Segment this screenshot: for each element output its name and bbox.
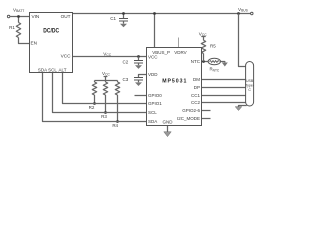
svg-text:DC/DC: DC/DC xyxy=(43,27,59,34)
svg-text:SDA: SDA xyxy=(38,67,47,72)
svg-text:EN: EN xyxy=(31,41,38,46)
svg-text:Type-: Type- xyxy=(245,84,255,88)
svg-text:NTC: NTC xyxy=(191,59,201,64)
svg-text:R1: R1 xyxy=(9,25,15,30)
svg-text:VCC: VCC xyxy=(102,71,110,77)
svg-text:C3: C3 xyxy=(123,77,129,82)
svg-text:R5: R5 xyxy=(210,43,216,48)
svg-text:OUT: OUT xyxy=(61,14,71,19)
svg-text:C2: C2 xyxy=(123,59,129,64)
svg-text:MP5031: MP5031 xyxy=(162,78,186,84)
svg-text:VDRV: VDRV xyxy=(174,50,186,55)
svg-text:VCC: VCC xyxy=(199,31,207,37)
svg-text:GPIO0: GPIO0 xyxy=(148,93,162,98)
svg-text:CC2: CC2 xyxy=(191,100,200,105)
svg-text:R4: R4 xyxy=(112,123,118,128)
svg-text:VCC: VCC xyxy=(103,51,111,57)
svg-text:GPIO2-6: GPIO2-6 xyxy=(182,108,200,113)
svg-text:C1: C1 xyxy=(110,16,116,21)
svg-text:ALT: ALT xyxy=(59,67,67,72)
svg-text:DP: DP xyxy=(194,85,200,90)
svg-text:VBATT: VBATT xyxy=(13,7,24,13)
svg-text:R2: R2 xyxy=(89,105,95,110)
svg-text:USB: USB xyxy=(246,79,254,83)
svg-text:CC1: CC1 xyxy=(191,93,200,98)
svg-text:VDD: VDD xyxy=(148,72,158,77)
svg-text:GND: GND xyxy=(163,119,174,124)
svg-text:VCC: VCC xyxy=(148,55,158,60)
svg-text:RNTC: RNTC xyxy=(210,67,220,73)
svg-text:SCL: SCL xyxy=(148,110,157,115)
svg-text:DM: DM xyxy=(193,77,200,82)
svg-text:SCL: SCL xyxy=(48,67,57,72)
svg-text:I2C_MODE: I2C_MODE xyxy=(177,116,200,121)
svg-text:VIN: VIN xyxy=(32,14,40,19)
svg-text:SDA: SDA xyxy=(148,119,157,124)
svg-text:GPIO1: GPIO1 xyxy=(148,101,162,106)
svg-text:VBUS: VBUS xyxy=(238,7,249,13)
svg-text:R3: R3 xyxy=(101,114,107,119)
svg-text:VCC: VCC xyxy=(61,54,72,59)
